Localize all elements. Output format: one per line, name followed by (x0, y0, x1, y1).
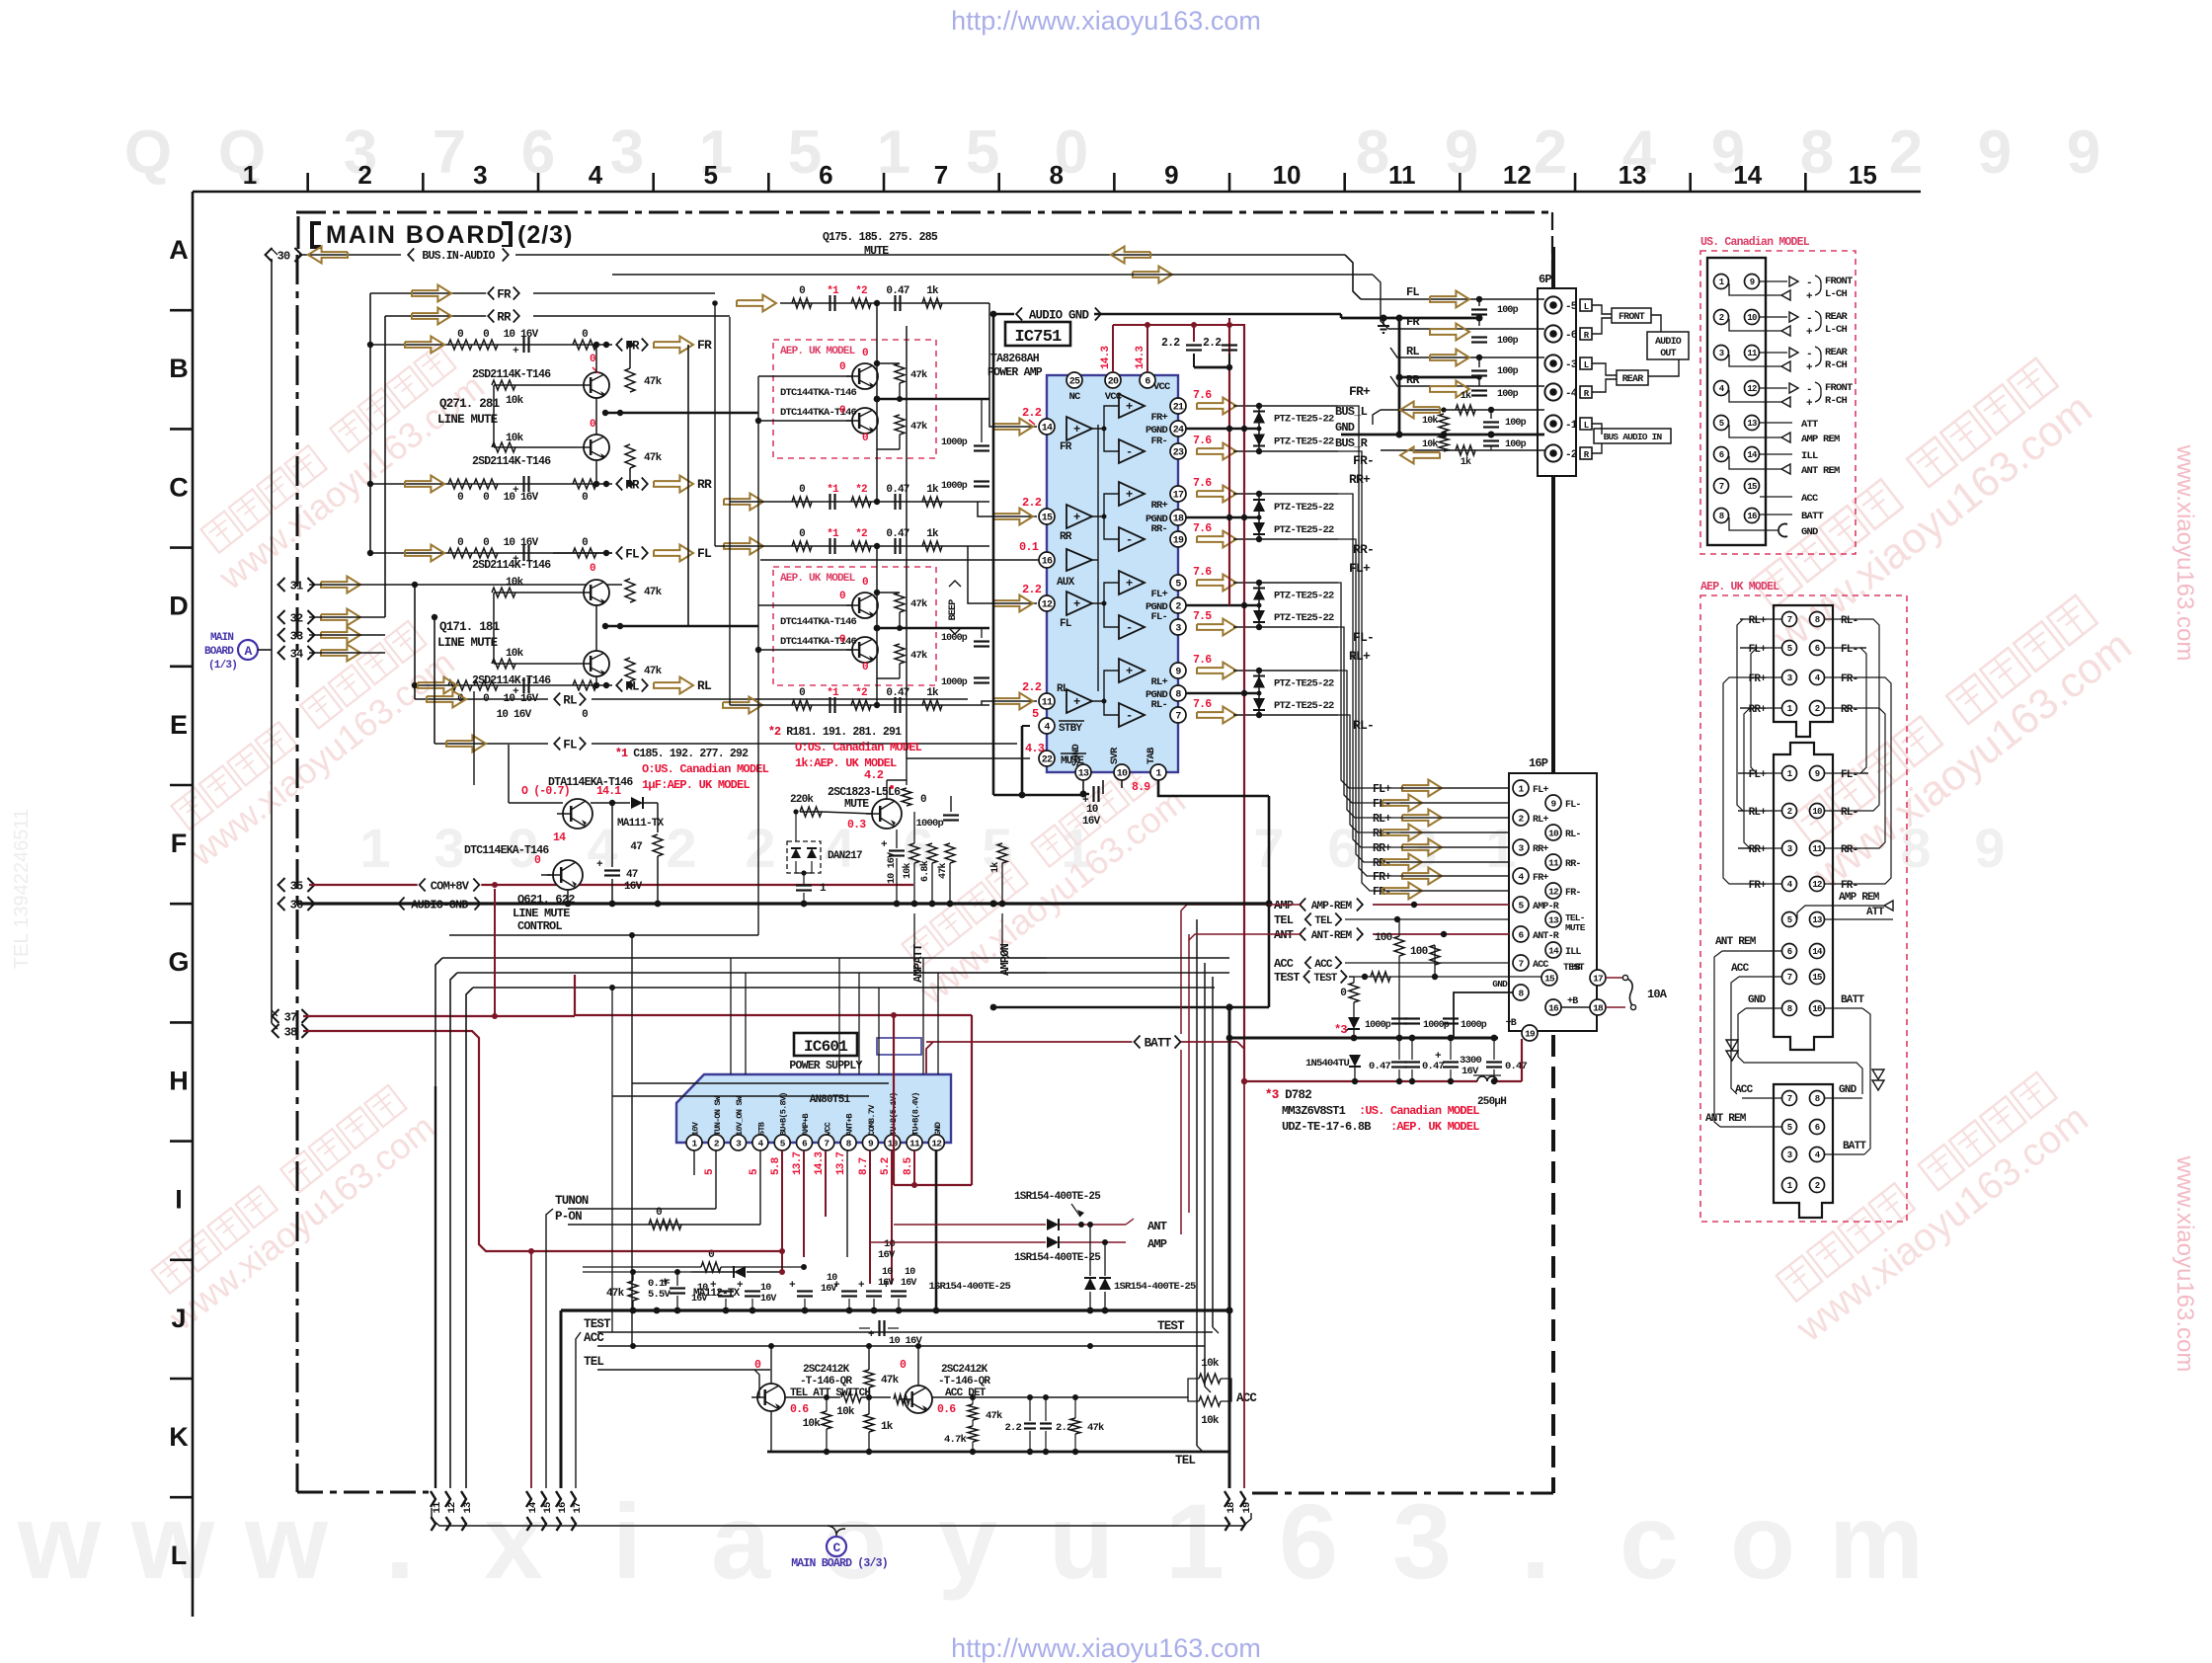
svg-text:-4: -4 (1565, 388, 1578, 400)
svg-text:18: 18 (1225, 1502, 1237, 1514)
cap 10 16v mid (878, 1320, 880, 1336)
AEP connector rect 3 (1774, 1084, 1833, 1218)
wire pin13 down (1082, 780, 1084, 794)
svg-text:13.7: 13.7 (792, 1152, 804, 1175)
svg-text:+: + (1073, 423, 1080, 436)
svg-text:COM8.7V: COM8.7V (867, 1104, 877, 1136)
res 47k v2b (968, 1426, 978, 1442)
svg-text:0.47: 0.47 (1505, 1061, 1528, 1072)
svg-text:10: 10 (760, 1283, 771, 1294)
svg-text:47k: 47k (910, 421, 927, 433)
watermark pink right-top (1738, 351, 2100, 662)
wire left v bundle (631, 935, 633, 1346)
svg-text:AUX: AUX (1057, 577, 1075, 589)
6P box (1538, 288, 1576, 476)
wires 6p right4 (1592, 424, 1602, 435)
svg-text:5: 5 (1175, 580, 1181, 591)
svg-text:100p: 100p (1497, 305, 1519, 316)
svg-text:0: 0 (582, 537, 588, 549)
svg-text:0: 0 (483, 537, 489, 549)
svg-text:1000p: 1000p (941, 677, 968, 688)
thick ps bus (561, 1308, 1229, 1311)
US gnd (1729, 517, 1777, 530)
svg-text:14: 14 (1548, 945, 1559, 956)
wire pin11 maroon (913, 1150, 915, 1185)
wire m1 chain (876, 303, 878, 363)
svg-text:-T-146-QR: -T-146-QR (800, 1376, 852, 1387)
brace center (828, 1526, 845, 1536)
watermark pink left (160, 615, 462, 875)
svg-text:POWER AMP: POWER AMP (987, 366, 1043, 379)
transistor Q172 (584, 651, 609, 676)
svg-text:ANT REM: ANT REM (1705, 1113, 1747, 1125)
svg-text:100: 100 (1410, 946, 1428, 958)
svg-text:12: 12 (1812, 880, 1822, 890)
svg-text:1µF:AEP. UK MODEL: 1µF:AEP. UK MODEL (642, 778, 750, 792)
svg-text:0: 0 (862, 577, 868, 589)
svg-text:+B: +B (1570, 963, 1581, 974)
maroon vert 905 (893, 1015, 895, 1185)
AEP connector 1 hooks (1723, 677, 1740, 884)
wire pin9 maroon (869, 1150, 871, 1284)
arrow 33 (321, 627, 360, 644)
svg-text:4: 4 (589, 160, 603, 190)
svg-text:2: 2 (666, 817, 696, 879)
svg-text:100p: 100p (1497, 336, 1519, 347)
wire long h 980 (464, 974, 1185, 976)
wire m1 thick (877, 398, 989, 401)
wires outputs to 16P (1338, 406, 1509, 876)
res 0 test (1349, 983, 1359, 1002)
svg-text:0: 0 (534, 854, 541, 867)
svg-text:23: 23 (1173, 448, 1184, 459)
svg-text:+: + (1126, 400, 1133, 414)
wire audio gnd right (1340, 317, 1342, 319)
svg-text:0: 0 (920, 794, 926, 806)
svg-text:TEST: TEST (1157, 1319, 1185, 1333)
svg-text:-: - (1126, 709, 1132, 723)
svg-text:RR-: RR- (1841, 844, 1857, 856)
svg-text:w: w (17, 1481, 102, 1601)
svg-text:9: 9 (1175, 668, 1181, 678)
net BATT (926, 1041, 1134, 1043)
wire top rr (385, 315, 494, 317)
wire riser ANT (1188, 934, 1190, 1213)
svg-text:3: 3 (1392, 1481, 1452, 1601)
svg-text:RL+: RL+ (1749, 807, 1768, 819)
svg-text:16: 16 (1042, 557, 1053, 568)
svg-text:-5: -5 (1565, 301, 1578, 313)
svg-text:MUTE: MUTE (864, 245, 889, 258)
svg-text:11: 11 (1042, 698, 1053, 709)
svg-text:o: o (1730, 1481, 1795, 1601)
svg-text:9: 9 (1974, 817, 2005, 879)
svg-text:ANT REM: ANT REM (1715, 936, 1757, 948)
pin 4 (1039, 718, 1055, 734)
pin 13 (1075, 764, 1091, 780)
AEP batt hook (1862, 1008, 1870, 1154)
wire lower h1 (442, 957, 1229, 959)
svg-text:12: 12 (1747, 384, 1757, 394)
transistor mute1a (852, 363, 878, 389)
svg-text:15: 15 (542, 1502, 554, 1514)
svg-text:RL: RL (697, 678, 712, 693)
16P pins (1513, 780, 1529, 796)
node chev 13 (461, 1491, 466, 1507)
resistor 47k m1 (895, 363, 905, 383)
svg-text:FL-: FL- (1150, 611, 1167, 623)
svg-text:4.2: 4.2 (864, 768, 884, 782)
pin 16 (1039, 552, 1055, 568)
caps 10 16v row2 (797, 1290, 813, 1292)
svg-text:0: 0 (582, 329, 588, 341)
wire riser AMP (1134, 905, 1305, 1231)
svg-text:8.7: 8.7 (858, 1157, 870, 1175)
svg-text:5: 5 (1787, 1123, 1792, 1133)
svg-text:10k: 10k (803, 1418, 822, 1430)
res 100 test (1430, 945, 1440, 965)
arrow bus-in left (308, 247, 348, 264)
svg-text:2.2: 2.2 (1022, 496, 1042, 510)
svg-text:3: 3 (1787, 844, 1792, 854)
svg-text:8: 8 (1815, 1094, 1820, 1104)
svg-text:0: 0 (900, 1359, 907, 1372)
res 10k ampatt (909, 843, 919, 863)
svg-text:L-CH: L-CH (1825, 324, 1848, 336)
svg-text:16: 16 (1548, 1002, 1559, 1013)
svg-text:16V: 16V (760, 1294, 776, 1305)
svg-text:10: 10 (1812, 807, 1822, 817)
svg-text:10 16V: 10 16V (497, 709, 532, 721)
wire q17x bus (605, 625, 758, 627)
svg-text:100p: 100p (1497, 366, 1519, 377)
svg-text:TAB: TAB (1145, 747, 1157, 764)
svg-text:PTZ-TE25-22: PTZ-TE25-22 (1274, 414, 1334, 426)
svg-text:-: - (1806, 349, 1812, 360)
res 47k v3 (1070, 1418, 1080, 1434)
wire int fl (1092, 583, 1119, 603)
arrow 34 (321, 645, 360, 662)
transistor Q1823 (872, 799, 902, 829)
svg-text:TEST: TEST (1274, 971, 1300, 985)
svg-text:16V: 16V (878, 1249, 896, 1261)
svg-text:11: 11 (1388, 160, 1416, 190)
svg-text:J: J (171, 1304, 186, 1333)
svg-text:2.2: 2.2 (1022, 406, 1042, 420)
cap 47 16V (611, 803, 613, 867)
svg-text:BUS_R: BUS_R (1335, 436, 1369, 450)
svg-text:TEL: TEL (1314, 915, 1333, 927)
AEP connector 3 pins (1782, 1091, 1797, 1106)
frame dash thick right (1551, 1035, 1555, 1493)
channel row FR (370, 344, 612, 346)
svg-text:6: 6 (1815, 644, 1820, 654)
svg-text:RL+: RL+ (1533, 815, 1548, 826)
svg-text:RR-: RR- (1565, 859, 1581, 870)
svg-text:2SD2114K-T146: 2SD2114K-T146 (472, 455, 551, 468)
wire rl to pin11 (982, 701, 1037, 705)
svg-text:O (-0.7): O (-0.7) (521, 785, 570, 798)
svg-text:FR-: FR- (1150, 436, 1167, 447)
wire 47 down (657, 856, 659, 904)
wire v17 (575, 1487, 577, 1489)
op-amp RL in (1066, 689, 1092, 713)
pin 19 (1522, 1025, 1538, 1041)
6P pins (1544, 296, 1561, 313)
svg-text:15: 15 (1747, 482, 1757, 492)
svg-text:47k: 47k (910, 369, 927, 381)
wire fl lower (434, 743, 1017, 745)
node chev 17 (571, 1491, 576, 1507)
wire 1288 row (583, 1271, 691, 1273)
wire riser ACC (1204, 963, 1206, 1386)
svg-text:5.8: 5.8 (770, 1156, 782, 1175)
diode ma112 (734, 1266, 746, 1278)
op-amp FL in (1066, 592, 1092, 615)
arrow pin12 (993, 595, 1033, 612)
wire v11 (435, 958, 442, 1086)
wire q621 rail (591, 802, 630, 804)
node chev 16 (556, 1491, 561, 1507)
svg-text:UDZ-TE-17-6.8B: UDZ-TE-17-6.8B (1282, 1120, 1371, 1134)
svg-text:*3: *3 (1334, 1023, 1347, 1037)
svg-text:FR-: FR- (1353, 453, 1374, 468)
caps 1000p col2 (974, 480, 989, 482)
maroon ic601 right (971, 1015, 973, 1185)
wire v14 maroon (530, 1251, 532, 1488)
svg-text:+: + (1126, 577, 1133, 591)
svg-text:AMP+B: AMP+B (801, 1114, 811, 1136)
svg-text:LINE MUTE: LINE MUTE (513, 907, 570, 920)
svg-text:TEST: TEST (1313, 973, 1337, 985)
US speaker outputs (1760, 280, 1787, 282)
svg-text:c: c (1619, 1481, 1679, 1601)
wire ant curve (1126, 1219, 1134, 1225)
wire v18 thick (1228, 1007, 1231, 1488)
wire busl left (1373, 410, 1381, 425)
wire rc feed links (715, 545, 780, 547)
wire int rr (1092, 494, 1119, 516)
res 220k (800, 807, 822, 817)
svg-text:1k: 1k (881, 1421, 894, 1433)
svg-text:7.6: 7.6 (1193, 435, 1212, 447)
net AUDIO GND (993, 313, 1027, 316)
maroon ant vert (1179, 1218, 1181, 1220)
wire caps down1 (725, 1272, 727, 1289)
svg-text:AMP-REM: AMP-REM (1311, 901, 1353, 912)
svg-text:2.2: 2.2 (1161, 337, 1180, 350)
svg-text:*1: *1 (827, 687, 839, 699)
diodes PTZ FL (1258, 583, 1260, 627)
resistor 47k d (625, 658, 635, 681)
wire RR 6p (1390, 376, 1544, 386)
svg-text:FR+: FR+ (1533, 873, 1548, 884)
svg-text:10V_ON SW: 10V_ON SW (735, 1095, 745, 1136)
svg-text:5: 5 (966, 119, 999, 187)
svg-text:H: H (169, 1066, 189, 1095)
pin 17 (1590, 970, 1606, 986)
svg-text:2.2: 2.2 (1004, 1422, 1021, 1434)
wire q641 col (770, 1346, 772, 1384)
svg-text:VCC: VCC (1105, 391, 1123, 403)
res 47k q6 (864, 1370, 874, 1387)
svg-text:10V: 10V (691, 1121, 701, 1136)
svg-text:GND: GND (1801, 526, 1818, 538)
wire 1823 base (800, 811, 822, 813)
node 880 (866, 1394, 872, 1400)
wire int aux (1092, 559, 1098, 561)
svg-text:1SR154-400TE-25: 1SR154-400TE-25 (1114, 1281, 1196, 1293)
svg-text:10: 10 (1086, 804, 1098, 816)
pin aep 8 16 (1782, 1001, 1797, 1016)
wire fr top right (533, 292, 715, 294)
wire ma111 down (657, 803, 659, 832)
svg-text:16: 16 (1747, 512, 1757, 521)
transistor Q271 (584, 372, 609, 398)
svg-text:2SC2412K: 2SC2412K (941, 1364, 988, 1376)
svg-text:AEP. UK MODEL: AEP. UK MODEL (780, 573, 856, 585)
svg-text:47: 47 (630, 841, 642, 853)
node A circle (238, 640, 258, 660)
svg-text:+B: +B (1506, 1018, 1517, 1029)
svg-text:47k: 47k (881, 1375, 900, 1386)
svg-text:E: E (170, 710, 188, 740)
svg-text:PTZ-TE25-22: PTZ-TE25-22 (1274, 612, 1334, 624)
REAR box (1617, 370, 1648, 385)
svg-text:11: 11 (909, 1138, 920, 1148)
svg-text:7: 7 (934, 160, 948, 190)
svg-text:12: 12 (1042, 600, 1053, 611)
svg-text:.: . (1521, 1481, 1550, 1601)
svg-text:15: 15 (1544, 973, 1555, 984)
svg-text:34: 34 (290, 647, 303, 661)
svg-text:0: 0 (799, 484, 805, 496)
svg-text:1: 1 (877, 119, 910, 187)
AEP dbl arrow 2 (1872, 1069, 1884, 1090)
inductor 250 (1477, 1076, 1497, 1081)
svg-text:F: F (171, 829, 188, 858)
svg-text:BEEP: BEEP (948, 599, 959, 621)
svg-text:-: - (1806, 384, 1812, 396)
svg-text:5: 5 (1787, 915, 1792, 925)
diodes PTZ RL (1258, 671, 1260, 715)
caps 047 row (1391, 1061, 1407, 1063)
wire vcc top h (1113, 324, 1244, 326)
wire tel b (597, 1369, 770, 1371)
svg-text:7.6: 7.6 (1193, 389, 1212, 402)
svg-text:RR+: RR+ (1373, 842, 1391, 855)
arrow mid fr (737, 295, 776, 312)
channel row RR (370, 483, 612, 485)
svg-text:http://www.xiaoyu163.com: http://www.xiaoyu163.com (951, 6, 1261, 36)
wire tunon (568, 1208, 716, 1210)
svg-text:DTC144TKA-T146: DTC144TKA-T146 (780, 407, 857, 419)
svg-text:.: . (385, 1481, 415, 1601)
cap SVR (1102, 780, 1104, 794)
frame right vertical (1551, 212, 1553, 284)
pin 20 (1105, 372, 1121, 388)
svg-text:11: 11 (1747, 349, 1758, 358)
svg-text:0: 0 (457, 329, 463, 341)
svg-text:1000p: 1000p (941, 437, 968, 448)
wire m1 base (758, 375, 852, 377)
svg-text:8: 8 (1719, 512, 1724, 521)
cap 100p fl (1471, 308, 1487, 310)
svg-text:8.9: 8.9 (1132, 781, 1150, 794)
res h 10k mid (841, 1392, 861, 1402)
svg-text:(1/3): (1/3) (208, 660, 237, 672)
svg-text:1k: 1k (926, 687, 939, 699)
svg-text:C: C (169, 472, 189, 502)
svg-text:-: - (1806, 277, 1812, 289)
svg-text:0: 0 (483, 492, 489, 504)
wire pin1 down (1158, 780, 1269, 796)
cap 100p rr (1471, 389, 1487, 391)
svg-text:www.xiaoyu163.com: www.xiaoyu163.com (2172, 444, 2198, 662)
svg-text:3: 3 (1787, 673, 1792, 683)
thick rear 6p (1399, 376, 1479, 379)
svg-text:0: 0 (590, 354, 595, 365)
svg-text:12: 12 (1548, 886, 1559, 897)
svg-text:1k: 1k (926, 285, 939, 297)
cap 10 16v amp (889, 849, 905, 851)
arrow fr top (412, 285, 451, 302)
svg-text:AUDIO GND: AUDIO GND (1029, 309, 1090, 323)
svg-text:*2: *2 (855, 687, 867, 699)
svg-text:10k: 10k (1422, 438, 1438, 450)
wire fl row (553, 552, 612, 554)
svg-text:FL: FL (1406, 285, 1419, 299)
svg-text:10: 10 (905, 1267, 915, 1278)
svg-text:FR+: FR+ (1749, 880, 1768, 892)
wire caps down2 (804, 1299, 806, 1310)
svg-text:13: 13 (1619, 160, 1647, 190)
svg-text:RL+: RL+ (1150, 676, 1167, 688)
transistor Q272 (584, 435, 609, 460)
svg-text:33: 33 (290, 629, 303, 643)
svg-text:7.6: 7.6 (1193, 477, 1212, 490)
svg-text:0: 0 (590, 419, 595, 431)
svg-text:-: - (1126, 533, 1132, 547)
svg-text:1000p: 1000p (1461, 1020, 1487, 1031)
AEP dbl arrow 1 (1726, 1040, 1738, 1061)
AEP connector rect 1 (1774, 605, 1833, 737)
wire int rl (1092, 671, 1119, 701)
svg-text:2: 2 (745, 817, 775, 879)
svg-text:*2: *2 (855, 484, 867, 496)
svg-text:47k: 47k (910, 598, 927, 610)
wire fl to pin12 (968, 546, 1037, 603)
transistor Q171 (584, 580, 609, 605)
svg-text:14.3: 14.3 (1135, 346, 1146, 369)
svg-text:FL: FL (563, 739, 577, 752)
svg-text:y: y (938, 1481, 997, 1601)
IC751 label box (1005, 322, 1070, 346)
wire pin6 maroon (803, 1150, 805, 1257)
IC601 spare box (877, 1038, 921, 1055)
svg-text:I: I (175, 1185, 183, 1215)
caps 1000p col (974, 444, 989, 446)
net FL lower (548, 736, 592, 752)
maroon bus +B (1244, 1080, 1477, 1082)
svg-text:6.8k: 6.8k (919, 860, 931, 882)
res 68k (927, 843, 937, 863)
wire q271 e (595, 398, 597, 435)
transistor mute2a (852, 593, 878, 618)
svg-text:PTZ-TE25-22: PTZ-TE25-22 (1274, 524, 1334, 536)
svg-text:15: 15 (1849, 160, 1877, 190)
svg-text:7.6: 7.6 (1193, 698, 1212, 711)
